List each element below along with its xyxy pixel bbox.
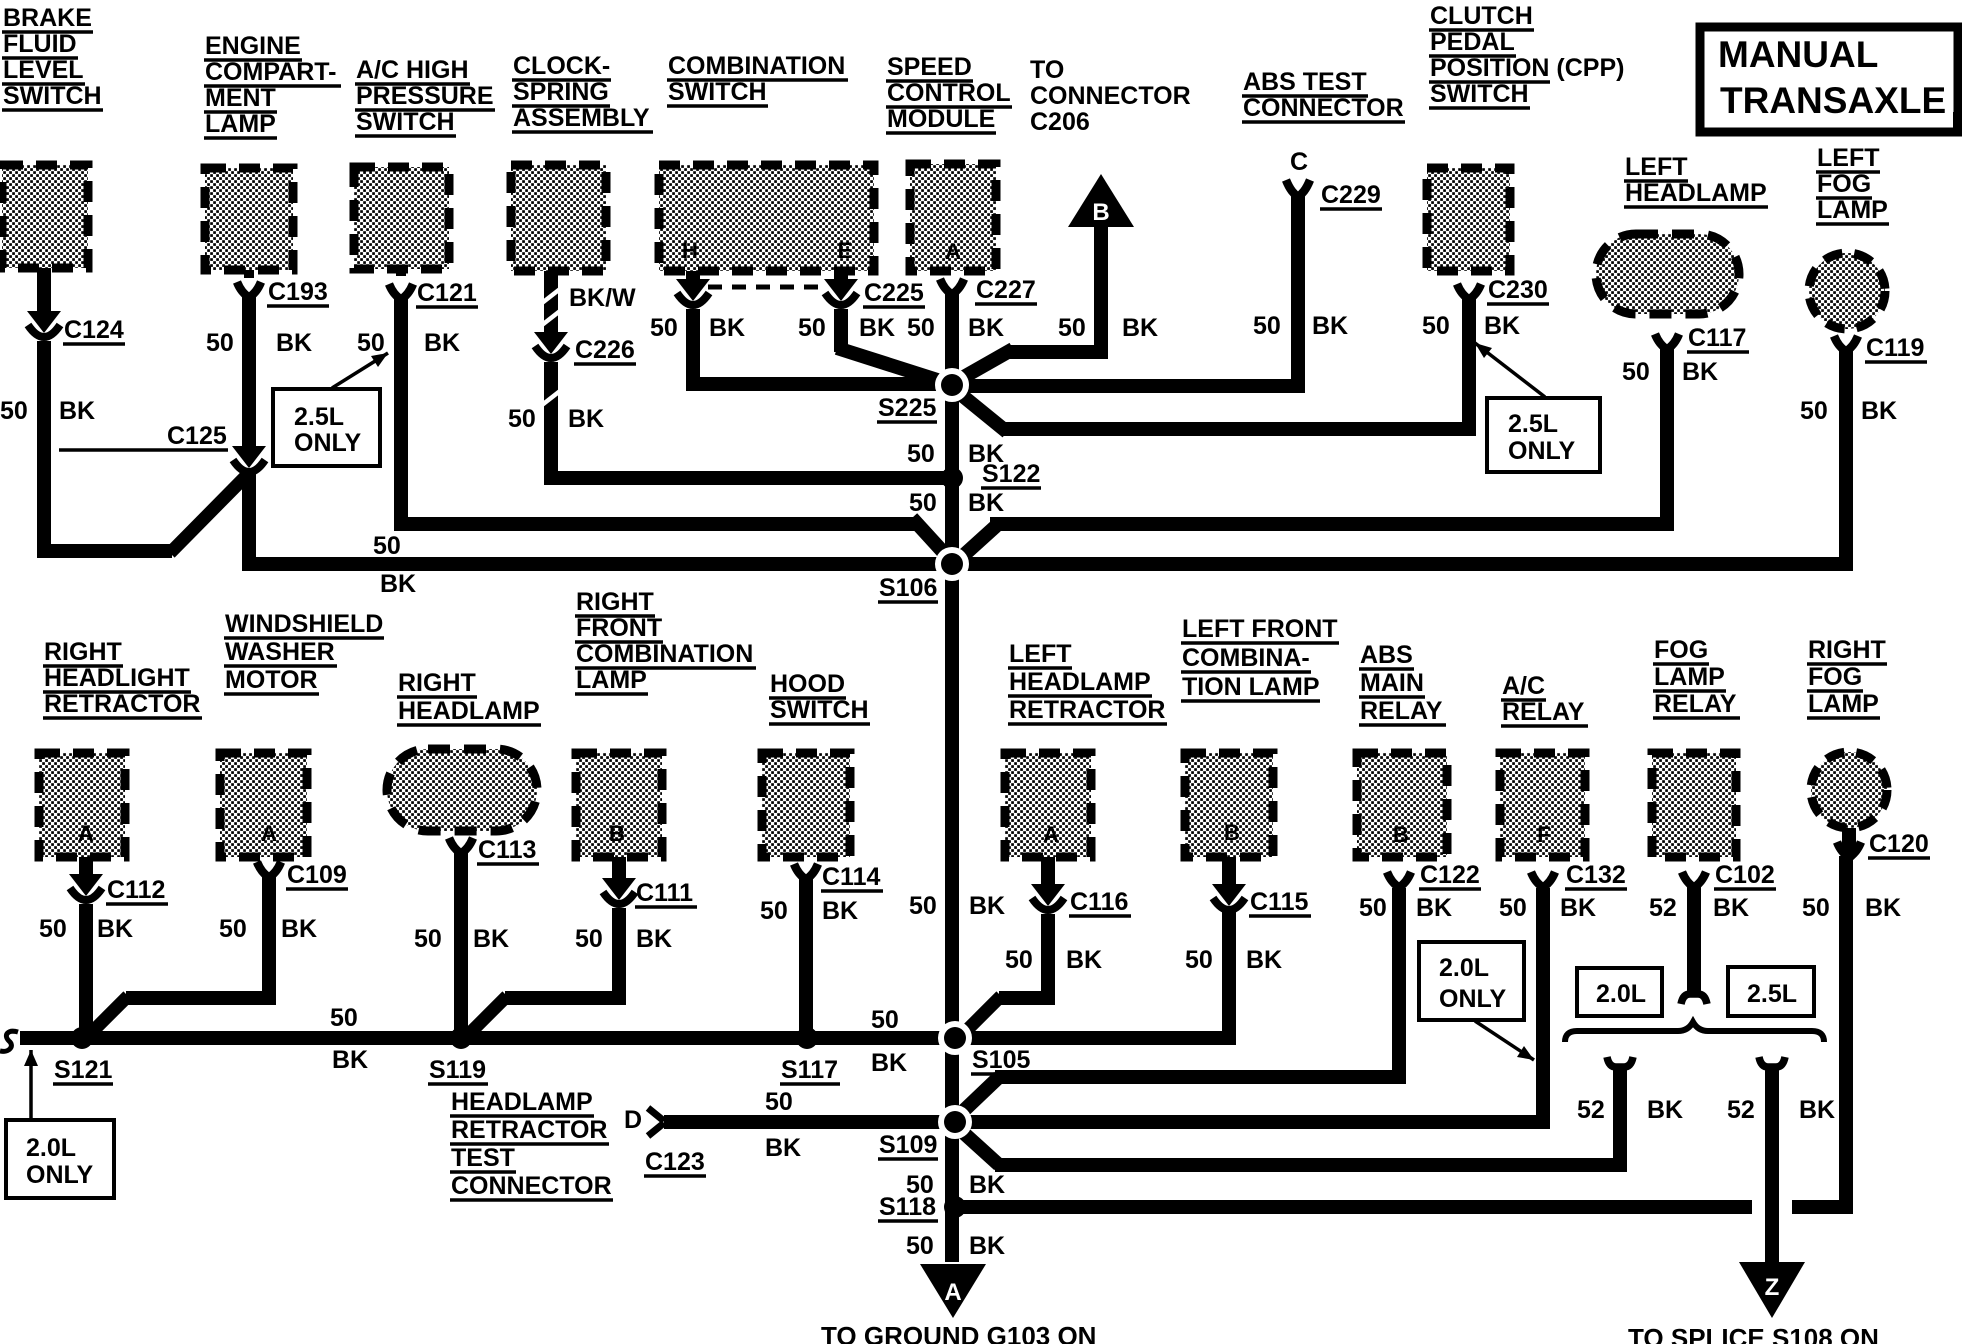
svg-text:50: 50 xyxy=(330,1004,358,1032)
svg-text:50: 50 xyxy=(909,489,937,517)
svg-text:BK: BK xyxy=(968,314,1004,342)
svg-text:C114: C114 xyxy=(822,863,880,891)
svg-text:BK: BK xyxy=(59,397,95,425)
svg-text:BK/W: BK/W xyxy=(569,284,636,312)
svg-text:50: 50 xyxy=(219,915,247,943)
svg-text:BK: BK xyxy=(969,1171,1005,1199)
svg-text:COMBINATION: COMBINATION xyxy=(668,52,845,80)
svg-text:LAMP: LAMP xyxy=(576,666,647,694)
svg-text:A/C HIGH: A/C HIGH xyxy=(356,56,469,84)
svg-text:SWITCH: SWITCH xyxy=(668,78,767,106)
svg-text:COMBINA-: COMBINA- xyxy=(1182,644,1310,672)
svg-text:Z: Z xyxy=(1765,1274,1780,1301)
svg-text:50: 50 xyxy=(508,405,536,433)
svg-text:BK: BK xyxy=(424,329,460,357)
svg-text:50: 50 xyxy=(575,925,603,953)
svg-text:ONLY: ONLY xyxy=(1439,985,1506,1013)
svg-text:TION LAMP: TION LAMP xyxy=(1182,673,1320,701)
svg-text:50: 50 xyxy=(0,397,28,425)
svg-text:2.0L: 2.0L xyxy=(26,1134,76,1162)
svg-text:FRONT: FRONT xyxy=(576,614,662,642)
svg-text:A/C: A/C xyxy=(1502,672,1545,700)
svg-text:SWITCH: SWITCH xyxy=(356,108,455,136)
svg-text:BK: BK xyxy=(1560,894,1596,922)
svg-text:C123: C123 xyxy=(645,1148,705,1176)
svg-text:C226: C226 xyxy=(575,336,635,364)
svg-text:BK: BK xyxy=(1682,358,1718,386)
svg-text:C113: C113 xyxy=(478,836,536,864)
svg-text:CONNECTOR: CONNECTOR xyxy=(451,1172,612,1200)
svg-text:S105: S105 xyxy=(972,1046,1030,1074)
svg-text:BK: BK xyxy=(1416,894,1452,922)
svg-text:LEFT: LEFT xyxy=(1625,153,1688,181)
svg-text:BK: BK xyxy=(1647,1096,1683,1124)
svg-text:50: 50 xyxy=(760,897,788,925)
svg-text:50: 50 xyxy=(1422,312,1450,340)
svg-text:C229: C229 xyxy=(1321,181,1381,209)
svg-text:BK: BK xyxy=(1246,946,1282,974)
svg-text:C206: C206 xyxy=(1030,108,1090,136)
svg-text:C119: C119 xyxy=(1866,334,1924,362)
svg-text:BK: BK xyxy=(568,405,604,433)
svg-text:TO: TO xyxy=(1030,56,1064,84)
svg-text:MODULE: MODULE xyxy=(887,105,995,133)
svg-text:50: 50 xyxy=(1359,894,1387,922)
svg-text:BK: BK xyxy=(97,915,133,943)
svg-text:BK: BK xyxy=(765,1134,801,1162)
svg-text:2.5L: 2.5L xyxy=(294,403,344,431)
svg-text:CLUTCH: CLUTCH xyxy=(1430,2,1533,30)
svg-text:LEFT FRONT: LEFT FRONT xyxy=(1182,615,1338,643)
svg-text:BK: BK xyxy=(1865,894,1901,922)
svg-text:RIGHT: RIGHT xyxy=(576,588,654,616)
svg-text:TO GROUND G103 ON: TO GROUND G103 ON xyxy=(821,1321,1096,1344)
svg-text:50: 50 xyxy=(1253,312,1281,340)
svg-text:CONNECTOR: CONNECTOR xyxy=(1243,94,1404,122)
svg-text:C227: C227 xyxy=(976,276,1036,304)
svg-text:B: B xyxy=(609,821,625,846)
svg-text:C132: C132 xyxy=(1566,861,1626,889)
svg-text:BK: BK xyxy=(859,314,895,342)
svg-text:50: 50 xyxy=(798,314,826,342)
svg-text:SWITCH: SWITCH xyxy=(1430,80,1529,108)
svg-text:BRAKE: BRAKE xyxy=(3,4,92,32)
svg-text:RIGHT: RIGHT xyxy=(44,638,122,666)
svg-text:SWITCH: SWITCH xyxy=(770,696,869,724)
svg-text:B: B xyxy=(1393,822,1409,847)
svg-text:RELAY: RELAY xyxy=(1654,690,1737,718)
svg-text:C125: C125 xyxy=(167,422,227,450)
svg-text:BK: BK xyxy=(473,925,509,953)
svg-text:50: 50 xyxy=(1622,358,1650,386)
svg-text:RETRACTOR: RETRACTOR xyxy=(451,1116,607,1144)
svg-text:FLUID: FLUID xyxy=(3,30,77,58)
svg-text:H: H xyxy=(682,238,698,263)
svg-text:50: 50 xyxy=(206,329,234,357)
svg-text:LAMP: LAMP xyxy=(1817,196,1888,224)
svg-text:C225: C225 xyxy=(864,279,924,307)
svg-text:50: 50 xyxy=(1802,894,1830,922)
svg-text:PRESSURE: PRESSURE xyxy=(356,82,494,110)
svg-text:BK: BK xyxy=(968,489,1004,517)
svg-text:BK: BK xyxy=(1861,397,1897,425)
svg-text:SPEED: SPEED xyxy=(887,53,972,81)
svg-text:LEFT: LEFT xyxy=(1817,144,1880,172)
svg-text:POSITION (CPP): POSITION (CPP) xyxy=(1430,54,1624,82)
svg-text:50: 50 xyxy=(909,892,937,920)
svg-text:50: 50 xyxy=(373,532,401,560)
svg-text:C111: C111 xyxy=(636,879,693,907)
svg-text:BK: BK xyxy=(709,314,745,342)
svg-text:C117: C117 xyxy=(1688,324,1746,352)
svg-text:50: 50 xyxy=(906,1171,934,1199)
svg-text:BK: BK xyxy=(822,897,858,925)
svg-text:50: 50 xyxy=(1185,946,1213,974)
svg-text:LAMP: LAMP xyxy=(1808,690,1879,718)
svg-text:A: A xyxy=(261,821,277,846)
svg-text:2.5L: 2.5L xyxy=(1508,410,1558,438)
svg-text:C112: C112 xyxy=(107,876,165,904)
svg-text:50: 50 xyxy=(39,915,67,943)
svg-text:C109: C109 xyxy=(287,861,347,889)
svg-text:BK: BK xyxy=(380,570,416,598)
svg-text:HEADLAMP: HEADLAMP xyxy=(398,697,540,725)
svg-text:SWITCH: SWITCH xyxy=(3,82,102,110)
svg-text:E: E xyxy=(838,238,853,263)
svg-text:CLOCK-: CLOCK- xyxy=(513,52,610,80)
svg-text:BK: BK xyxy=(1484,312,1520,340)
svg-text:C124: C124 xyxy=(64,316,124,344)
svg-text:PEDAL: PEDAL xyxy=(1430,28,1515,56)
svg-text:BK: BK xyxy=(969,892,1005,920)
svg-text:HEADLAMP: HEADLAMP xyxy=(451,1088,593,1116)
svg-text:BK: BK xyxy=(871,1049,907,1077)
svg-text:RETRACTOR: RETRACTOR xyxy=(44,690,200,718)
svg-text:S106: S106 xyxy=(879,574,937,602)
svg-text:RELAY: RELAY xyxy=(1502,698,1585,726)
svg-text:C115: C115 xyxy=(1250,888,1308,916)
svg-text:B: B xyxy=(1092,199,1109,226)
svg-text:FOG: FOG xyxy=(1817,170,1871,198)
svg-text:50: 50 xyxy=(414,925,442,953)
svg-text:MENT: MENT xyxy=(205,84,276,112)
svg-text:BK: BK xyxy=(281,915,317,943)
svg-text:50: 50 xyxy=(765,1088,793,1116)
svg-text:RELAY: RELAY xyxy=(1360,697,1443,725)
svg-text:LAMP: LAMP xyxy=(1654,663,1725,691)
svg-text:BK: BK xyxy=(1312,312,1348,340)
svg-text:C: C xyxy=(1290,148,1308,176)
svg-text:BK: BK xyxy=(968,440,1004,468)
svg-text:C120: C120 xyxy=(1869,830,1929,858)
svg-text:52: 52 xyxy=(1649,894,1677,922)
svg-text:52: 52 xyxy=(1577,1096,1605,1124)
svg-text:HEADLAMP: HEADLAMP xyxy=(1009,668,1151,696)
svg-text:C193: C193 xyxy=(268,278,328,306)
svg-text:50: 50 xyxy=(1800,397,1828,425)
svg-text:RIGHT: RIGHT xyxy=(1808,636,1886,664)
svg-text:COMPART-: COMPART- xyxy=(205,58,336,86)
svg-text:A: A xyxy=(1043,822,1059,847)
svg-text:A: A xyxy=(78,821,94,846)
svg-text:S119: S119 xyxy=(429,1056,486,1084)
svg-text:MOTOR: MOTOR xyxy=(225,666,318,694)
svg-text:ENGINE: ENGINE xyxy=(205,32,301,60)
svg-text:ONLY: ONLY xyxy=(1508,437,1575,465)
svg-text:C121: C121 xyxy=(417,279,477,307)
svg-text:BK: BK xyxy=(276,329,312,357)
svg-text:S121: S121 xyxy=(54,1056,112,1084)
svg-text:50: 50 xyxy=(906,1232,934,1260)
svg-text:FOG: FOG xyxy=(1654,636,1708,664)
svg-text:C122: C122 xyxy=(1420,861,1480,889)
svg-text:50: 50 xyxy=(871,1006,899,1034)
svg-text:F: F xyxy=(1537,822,1550,847)
svg-text:ASSEMBLY: ASSEMBLY xyxy=(513,104,650,132)
svg-text:D: D xyxy=(624,1106,642,1134)
svg-text:BK: BK xyxy=(1122,314,1158,342)
svg-text:MAIN: MAIN xyxy=(1360,669,1424,697)
svg-text:2.5L: 2.5L xyxy=(1747,980,1797,1008)
svg-text:BK: BK xyxy=(1066,946,1102,974)
svg-text:TO SPLICE S108 ON: TO SPLICE S108 ON xyxy=(1628,1323,1879,1344)
svg-text:C116: C116 xyxy=(1070,888,1128,916)
svg-text:LAMP: LAMP xyxy=(205,110,276,138)
svg-text:A: A xyxy=(944,1279,961,1306)
svg-text:TRANSAXLE: TRANSAXLE xyxy=(1720,80,1946,121)
svg-text:B: B xyxy=(1224,820,1240,845)
svg-text:C102: C102 xyxy=(1715,861,1775,889)
svg-text:BK: BK xyxy=(1713,894,1749,922)
svg-text:ONLY: ONLY xyxy=(294,429,361,457)
svg-text:BK: BK xyxy=(969,1232,1005,1260)
svg-text:HEADLIGHT: HEADLIGHT xyxy=(44,664,190,692)
svg-text:A: A xyxy=(945,239,961,264)
svg-text:2.0L: 2.0L xyxy=(1439,954,1489,982)
svg-text:LEVEL: LEVEL xyxy=(3,56,84,84)
svg-text:WASHER: WASHER xyxy=(225,638,335,666)
svg-text:LEFT: LEFT xyxy=(1009,640,1072,668)
svg-text:52: 52 xyxy=(1727,1096,1755,1124)
svg-text:50: 50 xyxy=(650,314,678,342)
svg-text:TEST: TEST xyxy=(451,1144,515,1172)
svg-text:50: 50 xyxy=(1058,314,1086,342)
svg-text:HOOD: HOOD xyxy=(770,670,845,698)
svg-text:HEADLAMP: HEADLAMP xyxy=(1625,179,1767,207)
svg-text:50: 50 xyxy=(907,440,935,468)
svg-text:ABS TEST: ABS TEST xyxy=(1243,68,1367,96)
svg-text:BK: BK xyxy=(332,1046,368,1074)
svg-text:50: 50 xyxy=(1499,894,1527,922)
svg-text:CONNECTOR: CONNECTOR xyxy=(1030,82,1191,110)
svg-text:WINDSHIELD: WINDSHIELD xyxy=(225,610,383,638)
svg-text:50: 50 xyxy=(1005,946,1033,974)
svg-text:BK: BK xyxy=(1799,1096,1835,1124)
svg-text:CONTROL: CONTROL xyxy=(887,79,1011,107)
svg-text:C230: C230 xyxy=(1488,276,1548,304)
svg-text:50: 50 xyxy=(907,314,935,342)
svg-text:SPRING: SPRING xyxy=(513,78,609,106)
svg-text:RIGHT: RIGHT xyxy=(398,669,476,697)
svg-text:MANUAL: MANUAL xyxy=(1718,34,1878,75)
svg-text:2.0L: 2.0L xyxy=(1596,980,1646,1008)
svg-text:S109: S109 xyxy=(879,1131,937,1159)
svg-text:ABS: ABS xyxy=(1360,641,1413,669)
svg-text:S117: S117 xyxy=(781,1056,838,1084)
svg-text:50: 50 xyxy=(357,329,385,357)
svg-text:S225: S225 xyxy=(878,394,936,422)
svg-text:COMBINATION: COMBINATION xyxy=(576,640,753,668)
svg-text:FOG: FOG xyxy=(1808,663,1862,691)
svg-text:RETRACTOR: RETRACTOR xyxy=(1009,696,1165,724)
svg-text:BK: BK xyxy=(636,925,672,953)
svg-text:ONLY: ONLY xyxy=(26,1161,93,1189)
